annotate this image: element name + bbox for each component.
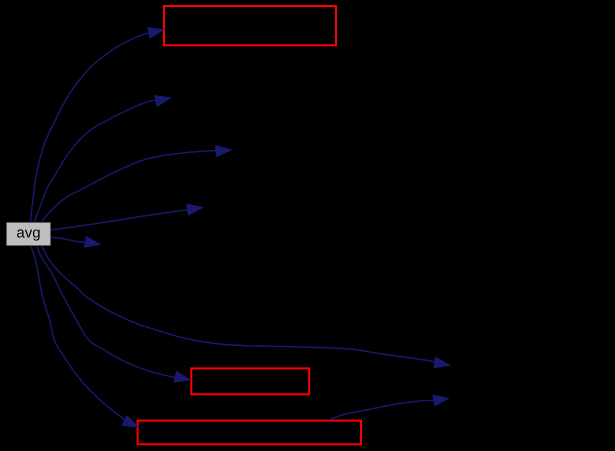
arrowhead edge bottom box -> right node — [432, 395, 450, 407]
edge avg -> node row2 (curve) — [35, 100, 156, 221]
node avg label text "avg" — [17, 229, 40, 240]
arrowhead edge avg -> top red box — [147, 27, 165, 39]
arrowhead edge avg -> middle red box — [174, 371, 192, 383]
edge bottom box -> right node (curve) — [329, 400, 434, 420]
edge avg -> node row3 (curve) — [42, 151, 216, 222]
edge avg -> node row4 (curve) — [51, 210, 188, 230]
arrowhead edge avg -> node row4 — [186, 204, 204, 216]
edge avg -> far right node (curve) — [42, 247, 435, 362]
arrowhead edge avg -> adjacent node — [84, 236, 102, 248]
node box middle (red, truncated) — [191, 368, 309, 394]
arrowhead edge avg -> far right node — [433, 357, 451, 369]
edge avg -> bottom red box (curve) — [31, 247, 125, 421]
arrowhead edge avg -> node row3 — [215, 145, 232, 157]
edge avg -> middle red box (curve) — [37, 247, 176, 378]
node avg (grey filled box) — [7, 223, 51, 246]
node box bottom (red, truncated) — [138, 421, 361, 445]
edge avg -> adjacent node (curve) — [51, 237, 86, 242]
arrowhead edge avg -> bottom red box — [122, 415, 140, 428]
arrowhead edge avg -> node row2 — [154, 95, 172, 107]
node box top (red, truncated) — [164, 6, 336, 45]
edge avg -> top red box (curve) — [31, 33, 150, 222]
